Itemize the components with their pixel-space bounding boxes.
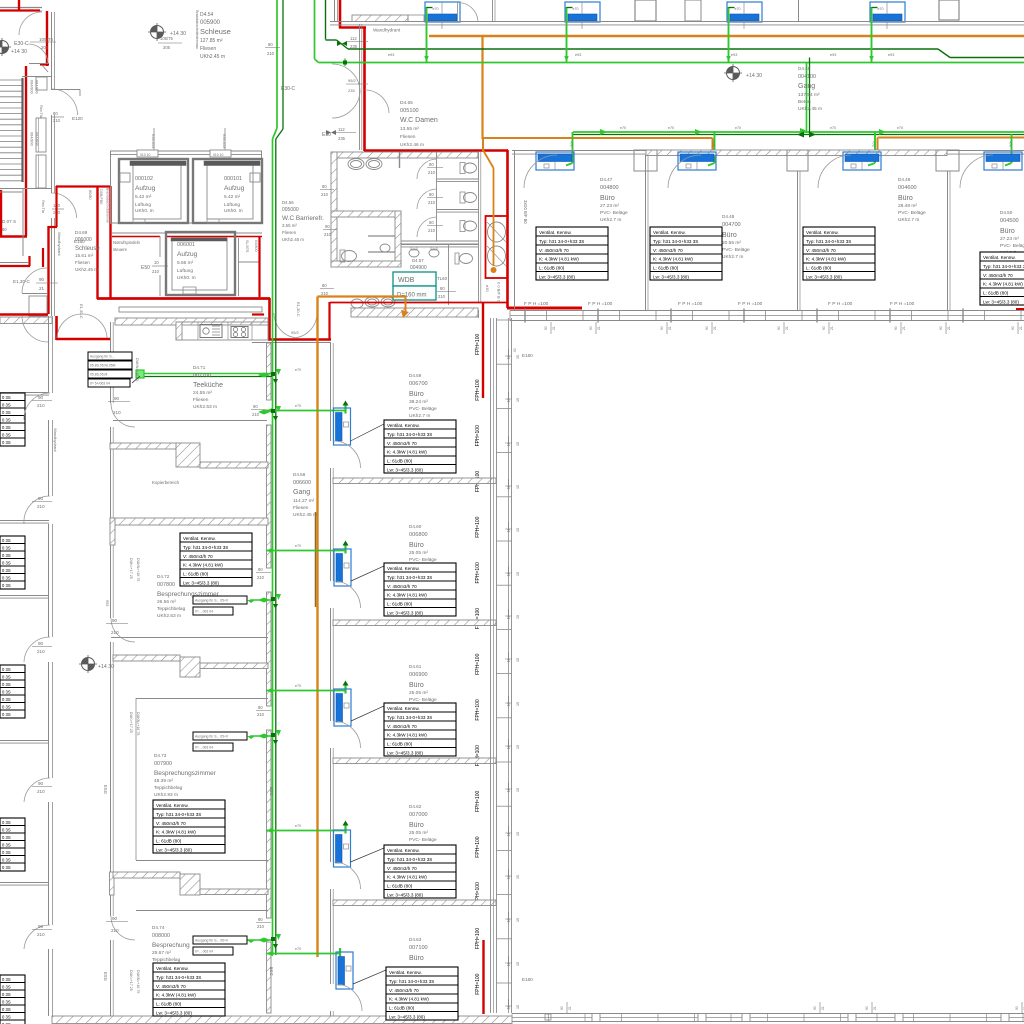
corridor door right leaf (293, 313, 317, 338)
svg-text:E1,30-C: E1,30-C (79, 304, 84, 319)
hall hatched walls below Teekueche (110, 443, 180, 449)
green drop to office unit 3 (874, 132, 876, 163)
north symbol right (724, 64, 742, 82)
red wall top of WC block (364, 149, 508, 152)
svg-text:004800: 004800 (600, 185, 619, 191)
green riser to top unit x566.5 (566, 7, 568, 62)
east wing inner wall x490 (490, 318, 492, 1013)
svg-text:E160: E160 (74, 239, 85, 244)
svg-text:Schleuse: Schleuse (200, 27, 231, 36)
orange riser x482 (481, 36, 483, 139)
svg-text:e93: e93 (575, 53, 581, 57)
svg-text:210: 210 (257, 575, 265, 580)
svg-text:112: 112 (350, 36, 357, 41)
svg-text:DUKN=+16 75: DUKN=+16 75 (136, 558, 140, 581)
svg-text:Beton: Beton (798, 99, 811, 105)
svg-text:90: 90 (38, 641, 44, 646)
corridor right wall x330 segments (330, 343, 332, 441)
svg-text:F P H =100: F P H =100 (828, 301, 853, 307)
svg-text:084/800: 084/800 (30, 80, 34, 94)
elevator shaft 1 (119, 159, 188, 223)
hatched wall piece x110 (110, 872, 115, 895)
gray wall under red y342 (252, 342, 331, 344)
svg-text:Teeküche: Teeküche (193, 382, 223, 389)
Bespr 007900 bottom wall (136, 860, 268, 862)
door arc Teekueche (111, 403, 135, 427)
svg-text:E1,30-C: E1,30-C (296, 302, 301, 317)
lower WC fixtures (409, 249, 419, 257)
partition x448 lower (448, 245, 450, 305)
svg-text:Büro: Büro (1000, 228, 1015, 235)
toilets right column (460, 163, 465, 174)
svg-text:E160: E160 (522, 977, 533, 982)
svg-text:D4.49: D4.49 (898, 177, 911, 182)
svg-text:UKh2.53 m: UKh2.53 m (157, 613, 181, 619)
svg-text:10: 10 (154, 260, 159, 265)
hatched shaft block hall3 (180, 874, 200, 895)
svg-text:38.24 m²: 38.24 m² (409, 399, 428, 405)
wall vertical x23 (22, 188, 24, 256)
svg-text:e93: e93 (888, 53, 894, 57)
svg-text:210: 210 (152, 269, 160, 274)
svg-text:90: 90 (38, 781, 44, 786)
door frame top 1 (137, 150, 158, 157)
svg-text:006900: 006900 (409, 672, 428, 678)
wall above door top-left (51, 89, 80, 91)
green drop to office unit 4 (1011, 134, 1013, 163)
svg-text:008000: 008000 (152, 933, 170, 939)
svg-text:210: 210 (37, 789, 45, 794)
svg-text:F P H =100: F P H =100 (738, 301, 763, 307)
orange upper branch y296 (318, 295, 407, 297)
svg-text:e70: e70 (573, 7, 579, 11)
svg-text:90: 90 (38, 924, 44, 929)
left branch level 2 y600 (250, 599, 272, 601)
svg-text:90: 90 (513, 348, 517, 352)
svg-text:000101: 000101 (224, 176, 242, 182)
green riser to top unit x426.5 (426, 7, 428, 62)
svg-text:Notrufspindeln: Notrufspindeln (113, 240, 141, 245)
WC inner hatched wall 2 (331, 261, 401, 267)
stair flight box 1 (36, 118, 46, 152)
svg-text:Aufzug: Aufzug (224, 185, 245, 192)
svg-text:ESG: ESG (269, 967, 274, 976)
light green duct line top (314, 0, 316, 59)
room divider hatched walls lower wing (333, 478, 496, 484)
svg-text:210: 210 (37, 504, 45, 509)
red bit far right y309 (1016, 308, 1024, 311)
svg-text:04/800: 04/800 (254, 240, 258, 252)
red line bottom of WC y302 (330, 302, 507, 304)
hatched shaft block hall2 (180, 657, 200, 677)
svg-text:E50: E50 (141, 265, 150, 271)
svg-text:5.66 m²: 5.66 m² (177, 260, 194, 266)
svg-text:Rev.Tür: Rev.Tür (41, 200, 45, 214)
svg-text:D4.72: D4.72 (157, 574, 170, 579)
svg-text:Büro: Büro (409, 955, 424, 962)
kitchen stove (231, 327, 248, 338)
svg-text:210: 210 (113, 410, 121, 415)
svg-text:ESG: ESG (269, 787, 274, 796)
svg-text:21: 21 (713, 326, 717, 330)
double door arc below vestibule red wall (22, 316, 48, 342)
svg-text:DUKN=+16 75: DUKN=+16 75 (135, 358, 139, 381)
svg-text:90: 90 (660, 326, 664, 330)
svg-text:UKh2.45 m: UKh2.45 m (798, 106, 822, 112)
svg-text:Brandabschnittstrennw.: Brandabschnittstrennw. (195, 10, 199, 49)
svg-text:010 10: 010 10 (213, 153, 223, 157)
red vertical x483 lower segment (482, 940, 484, 1014)
svg-text:084/800: 084/800 (35, 80, 39, 94)
svg-text:90: 90 (39, 277, 45, 282)
svg-text:25.05 m²: 25.05 m² (409, 830, 428, 836)
WC inner hatched wall horizontal (331, 211, 401, 217)
svg-text:UKh2.45 m: UKh2.45 m (75, 267, 98, 272)
svg-text:D4.54: D4.54 (200, 12, 214, 18)
svg-text:24.55 m²: 24.55 m² (193, 390, 212, 396)
hall corridor wall x110-113 (110, 322, 112, 403)
svg-text:90: 90 (114, 396, 120, 401)
Bespr 007900 top wall (136, 698, 268, 700)
facade pier bottom (1001, 1014, 1009, 1022)
svg-text:e30: e30 (485, 285, 490, 292)
door arc entry top-left (19, 12, 42, 35)
stall partition 1 (437, 178, 478, 180)
svg-text:Teppichbelag: Teppichbelag (154, 785, 183, 791)
svg-text:0= 5+/063 04: 0= 5+/063 04 (90, 382, 110, 386)
svg-text:210: 210 (321, 291, 329, 296)
svg-text:D4.73: D4.73 (154, 753, 167, 758)
top wall main (330, 21, 1024, 23)
svg-text:21: 21 (830, 326, 834, 330)
svg-text:114.27 m²: 114.27 m² (293, 498, 315, 504)
svg-text:F P H =100: F P H =100 (678, 301, 703, 307)
wall x238 (238, 238, 240, 296)
elevator shaft 3 (166, 232, 235, 295)
svg-text:Teppichbelag: Teppichbelag (152, 957, 181, 963)
svg-text:006800: 006800 (409, 532, 428, 538)
svg-text:PVC- Beläge: PVC- Beläge (1000, 243, 1024, 249)
svg-text:Büro: Büro (409, 542, 424, 549)
svg-text:90: 90 (777, 326, 781, 330)
svg-text:E30-053: E30-053 (222, 134, 226, 148)
svg-text:127.85 m²: 127.85 m² (200, 38, 223, 44)
sink barrier-free (380, 244, 390, 252)
svg-text:D4.69: D4.69 (75, 230, 88, 235)
WDB duct box (393, 272, 436, 286)
svg-text:90: 90 (112, 618, 118, 623)
svg-text:UKh2.45 m: UKh2.45 m (293, 512, 317, 518)
svg-text:007900: 007900 (154, 761, 172, 767)
left outer wall vertical double (51, 12, 53, 89)
svg-text:21: 21 (39, 286, 45, 291)
svg-text:Lüftung: Lüftung (177, 268, 193, 274)
svg-text:80/80: 80/80 (88, 190, 92, 200)
svg-text:953: 953 (105, 600, 109, 606)
svg-text:95/2: 95/2 (291, 330, 300, 335)
svg-text:Fliesen: Fliesen (282, 230, 297, 235)
svg-text:80: 80 (2, 227, 7, 232)
svg-text:005100: 005100 (400, 108, 419, 114)
svg-text:21: 21 (821, 1006, 825, 1010)
facade pier bottom (848, 1014, 856, 1022)
svg-text:205: 205 (163, 45, 171, 50)
svg-text:+70: +70 (711, 141, 715, 147)
svg-text:DUKN=+16 75: DUKN=+16 75 (136, 712, 140, 735)
svg-text:27.23 m²: 27.23 m² (1000, 236, 1019, 242)
svg-text:90: 90 (560, 1006, 564, 1010)
svg-text:F P H =100: F P H =100 (588, 301, 613, 307)
red wall y308 under first office (507, 307, 582, 310)
svg-text:PVC- Beläge: PVC- Beläge (409, 837, 437, 843)
svg-text:e70: e70 (620, 126, 626, 130)
svg-text:084/800: 084/800 (30, 132, 34, 146)
door arc 2 (29, 44, 48, 63)
red stub y314 (252, 313, 264, 315)
svg-text:E1,30-C: E1,30-C (13, 279, 31, 284)
svg-text:90: 90 (544, 326, 548, 330)
svg-text:E160: E160 (522, 353, 533, 358)
svg-text:Büro: Büro (722, 232, 737, 239)
svg-text:90: 90 (38, 496, 44, 501)
corridor left wall x267 (hatched segments) (267, 343, 272, 400)
svg-text:006600: 006600 (293, 480, 311, 486)
red fire wall at left edge (0, 190, 2, 236)
svg-text:28.48 m²: 28.48 m² (898, 203, 917, 209)
wall below stairs (0, 188, 52, 190)
svg-text:084/800: 084/800 (35, 132, 39, 146)
svg-text:21: 21 (552, 326, 556, 330)
Teekueche bottom wall with door (113, 420, 267, 422)
svg-text:005900: 005900 (200, 20, 221, 26)
facade pier bottom (895, 1014, 903, 1022)
hatched wall bottom left (0, 317, 52, 324)
svg-text:Ausgang für S... 05+0: Ausgang für S... 05+0 (195, 939, 228, 943)
stall wall vertical x436 (436, 152, 438, 241)
door arc lower (52, 193, 77, 218)
svg-text:80: 80 (322, 283, 327, 288)
svg-text:004100: 004100 (798, 74, 816, 80)
svg-text:Büro: Büro (898, 195, 913, 202)
orange drop x877 (877, 138, 879, 153)
dark supply accent line (315, 512, 317, 607)
svg-text:5.42 m²: 5.42 m² (135, 194, 152, 200)
svg-text:Büro: Büro (409, 682, 424, 689)
svg-text:0=... 063 04: 0=... 063 04 (195, 610, 213, 614)
svg-text:105/75: 105/75 (160, 36, 173, 41)
svg-text:Rev.Tür: Rev.Tür (39, 105, 43, 119)
svg-text:21: 21 (568, 1006, 572, 1010)
svg-text:210: 210 (111, 928, 119, 933)
office data tables (536, 227, 608, 280)
svg-text:80: 80 (440, 286, 445, 291)
Bespr 007900 left line (135, 698, 137, 860)
svg-text:Kopierbereich: Kopierbereich (152, 480, 180, 485)
office dividing walls (514, 150, 516, 310)
svg-text:UKh0. m: UKh0. m (177, 275, 196, 281)
svg-text:e70: e70 (295, 684, 301, 688)
stall doors (417, 159, 437, 179)
washbasins bottom row (365, 297, 379, 307)
red vertical x483 upper segment (482, 303, 484, 398)
svg-text:D4.57: D4.57 (412, 258, 424, 263)
svg-text:D4.74: D4.74 (152, 925, 165, 930)
svg-text:48.39 m²: 48.39 m² (154, 778, 173, 784)
svg-text:e70: e70 (295, 404, 301, 408)
green riser to top unit x871.5 (871, 7, 873, 62)
svg-text:010 10: 010 10 (140, 153, 150, 157)
svg-text:25.05 m²: 25.05 m² (409, 690, 428, 696)
kitchen counter (176, 322, 268, 340)
stall front wall (401, 240, 478, 242)
red wall to Schleuse floor opening (0, 313, 48, 316)
svg-text:21: 21 (902, 326, 906, 330)
svg-text:006001: 006001 (177, 242, 195, 248)
red fire wall near Schleuse (47, 226, 49, 314)
green drop to office unit 1 (572, 132, 574, 163)
svg-text:235: 235 (348, 88, 355, 93)
svg-text:004900: 004900 (410, 265, 427, 271)
svg-text:90: 90 (589, 326, 593, 330)
green riser to top unit x728.5 (728, 7, 730, 62)
wall pier x634 (634, 150, 657, 171)
Teekueche top hatched wall (115, 318, 268, 325)
svg-text:Aufzug: Aufzug (135, 185, 156, 192)
door arc room 006900 (334, 721, 361, 748)
svg-text:Wandhydrant: Wandhydrant (53, 428, 58, 453)
east facade of lower wing (496, 318, 498, 1013)
kitchen sink unit (200, 325, 222, 338)
svg-text:0 0 B/F B 0: 0 0 B/F B 0 (497, 282, 502, 303)
svg-text:90: 90 (822, 326, 826, 330)
svg-text:Ausgang für S...: Ausgang für S... (90, 355, 114, 359)
corridor gray wall beside red x360 (359, 24, 361, 150)
wall pier x787 (787, 150, 808, 171)
double door arc left leaf (57, 314, 82, 338)
svg-text:Aufzug: Aufzug (177, 251, 198, 258)
svg-text:E30-C: E30-C (281, 86, 296, 92)
WC Barrierefrei fixtures (340, 250, 345, 262)
Teekueche supply line y373-377 (140, 373, 272, 375)
bowtie door-seal symbol at E30 y43 (337, 41, 347, 46)
wall above stairs (22, 76, 52, 78)
svg-text:E30-C: E30-C (14, 41, 29, 47)
svg-text:13.55 m²: 13.55 m² (400, 126, 419, 132)
svg-text:004500: 004500 (1000, 218, 1019, 224)
svg-text:F P H =100: F P H =100 (890, 301, 915, 307)
svg-text:PVC- Beläge: PVC- Beläge (409, 557, 437, 563)
svg-text:D4.62: D4.62 (409, 804, 422, 809)
svg-text:+70: +70 (871, 141, 875, 147)
top room left wall (334, 0, 336, 22)
svg-text:210: 210 (37, 649, 45, 654)
left branch level 4 y940 (247, 939, 272, 941)
svg-text:210: 210 (252, 412, 260, 417)
svg-text:D4.71: D4.71 (193, 365, 206, 370)
svg-text:Wandhydrant: Wandhydrant (373, 28, 401, 33)
svg-text:D4.46: D4.46 (798, 66, 811, 71)
svg-text:007800: 007800 (157, 582, 175, 588)
door arc room 007100 (335, 984, 362, 1011)
svg-text:D4.58: D4.58 (293, 472, 306, 477)
svg-text:05.8S.05.M: 05.8S.05.M (90, 373, 108, 377)
svg-text:90: 90 (1011, 326, 1015, 330)
svg-text:+14 30: +14 30 (11, 49, 27, 55)
svg-text:80: 80 (429, 162, 434, 167)
svg-text:137.54 m²: 137.54 m² (798, 92, 820, 98)
red wall x259 (258, 236, 260, 297)
svg-text:5.42 m²: 5.42 m² (224, 194, 241, 200)
svg-text:007100: 007100 (409, 945, 428, 951)
red fire wall vertical x47 (46, 11, 48, 66)
bottom facade wall (512, 1013, 1024, 1015)
svg-text:210: 210 (428, 200, 436, 205)
dark green duct line top (325, 0, 327, 40)
svg-text:90: 90 (258, 705, 263, 710)
svg-text:21: 21 (597, 326, 601, 330)
svg-text:D4.48: D4.48 (722, 214, 735, 219)
orange duct main top y36 (429, 35, 1024, 38)
svg-text:UKh2.46 m: UKh2.46 m (400, 142, 424, 148)
red horizontal y266 (0, 265, 30, 267)
svg-text:UKh2.53 m: UKh2.53 m (193, 404, 217, 410)
office door arcs (524, 155, 557, 188)
double door arc right leaf (82, 314, 107, 338)
svg-text:21: 21 (947, 326, 951, 330)
svg-text:Fliesen: Fliesen (75, 260, 90, 265)
svg-text:15.61 m²: 15.61 m² (75, 253, 94, 258)
svg-text:90: 90 (939, 326, 943, 330)
corridor green risers (276, 0, 278, 128)
svg-text:Teppichbelag: Teppichbelag (157, 606, 186, 612)
svg-text:Büro: Büro (409, 391, 424, 398)
svg-text:E30-053: E30-053 (151, 134, 155, 148)
wall pier x936 (936, 150, 959, 171)
facade pier bottom (592, 1014, 600, 1022)
gray wall y233 (112, 232, 262, 234)
door frame top 2 (210, 150, 231, 157)
svg-text:007000: 007000 (409, 812, 428, 818)
svg-text:Fliesen: Fliesen (200, 46, 216, 52)
svg-text:UKh2.45 m: UKh2.45 m (282, 237, 304, 242)
office fan coil units (536, 152, 574, 170)
svg-text:UKh2.45 m: UKh2.45 m (200, 54, 225, 60)
svg-text:UKh0. m: UKh0. m (224, 208, 243, 214)
svg-text:05.8S.05.Nr.05M: 05.8S.05.Nr.05M (90, 364, 116, 368)
stair treads (0, 79, 22, 81)
svg-text:e70: e70 (295, 368, 301, 372)
svg-text:27.23 m²: 27.23 m² (600, 203, 619, 209)
stair flight box 2 (36, 155, 46, 188)
left outer wall double x48.5 (48, 316, 50, 393)
svg-text:TL60: TL60 (437, 276, 448, 281)
svg-text:+14 30: +14 30 (746, 73, 762, 79)
north symbol small (0, 38, 11, 56)
red bottom of Schleuse 006000 (56, 338, 111, 341)
svg-text:D4.61: D4.61 (409, 664, 422, 669)
svg-text:W.C Damen: W.C Damen (400, 117, 438, 124)
svg-text:e70: e70 (897, 126, 903, 130)
svg-text:80: 80 (429, 192, 434, 197)
north symbol left wing (79, 655, 97, 673)
svg-text:DUK=+17 25: DUK=+17 25 (129, 558, 133, 579)
svg-text:235: 235 (350, 44, 358, 49)
green drop to office unit 2 (714, 131, 716, 163)
WC left hatched wall (331, 152, 337, 265)
red wall right of shaft zone (506, 150, 509, 308)
top fan coil units with green risers (425, 2, 460, 29)
svg-text:80: 80 (429, 220, 434, 225)
